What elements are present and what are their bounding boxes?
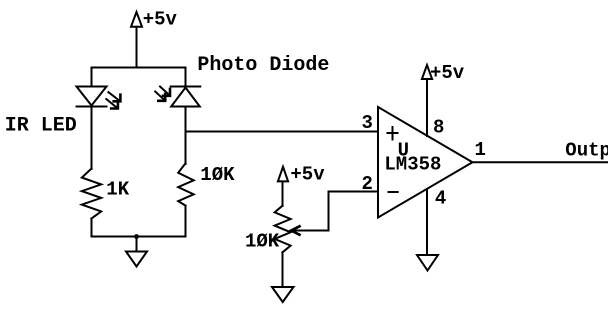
svg-text:+5v: +5v	[290, 164, 325, 186]
ground GND2 (op-amp)	[417, 255, 438, 271]
power +5v V2 (pot)	[278, 167, 288, 182]
svg-text:LM358: LM358	[384, 153, 441, 175]
svg-text:Output: Output	[565, 139, 608, 161]
svg-text:Photo Diode: Photo Diode	[197, 54, 329, 77]
wire output	[473, 161, 608, 163]
potentiometer R3 10K	[275, 206, 300, 253]
svg-text:3: 3	[362, 112, 373, 134]
power +5v V1	[131, 12, 142, 27]
resistor R2 10K	[178, 163, 194, 205]
wire R1 to bottom rail	[91, 219, 93, 237]
wire V1 to top rail	[136, 27, 138, 68]
svg-text:2: 2	[362, 173, 373, 195]
wire potentiometer to ground	[282, 252, 284, 287]
wire ground stub	[136, 237, 138, 252]
svg-text:1ØK: 1ØK	[245, 230, 280, 252]
wire R2 to bottom rail	[185, 206, 187, 237]
svg-text:+5v: +5v	[430, 62, 465, 84]
junction dot	[134, 234, 139, 239]
ground GND3 (pot)	[272, 287, 294, 302]
wire pin 8	[426, 79, 428, 136]
svg-text:1: 1	[475, 139, 486, 161]
svg-text:8: 8	[433, 116, 444, 138]
wire node to op-amp pin 3	[186, 131, 379, 133]
svg-text:1K: 1K	[106, 179, 129, 201]
power +5v V3 (op-amp)	[422, 65, 432, 79]
svg-text:+5v: +5v	[143, 9, 178, 31]
wire photodiode anode to R2	[185, 107, 187, 165]
wire wiper to op-amp pin 2	[291, 192, 378, 231]
svg-text:4: 4	[435, 188, 446, 210]
wire pin 4	[426, 189, 428, 255]
op-amp U1	[378, 107, 473, 218]
LED D1 (IR LED)	[77, 87, 121, 109]
svg-text:1ØK: 1ØK	[200, 164, 235, 186]
resistor R1 1K	[82, 169, 101, 219]
wire rail to LED anode	[91, 68, 93, 88]
ground GND1	[126, 252, 147, 267]
plus input mark	[388, 127, 398, 140]
wire top rail	[92, 67, 186, 69]
wire LED cathode to R1	[91, 107, 93, 170]
wire rail to photodiode cathode	[185, 68, 187, 87]
wire bottom rail	[92, 236, 186, 238]
minus input mark	[389, 191, 398, 193]
wire V2 to potentiometer	[282, 181, 284, 206]
photodiode D2	[155, 87, 200, 107]
svg-text:IR LED: IR LED	[5, 115, 77, 138]
